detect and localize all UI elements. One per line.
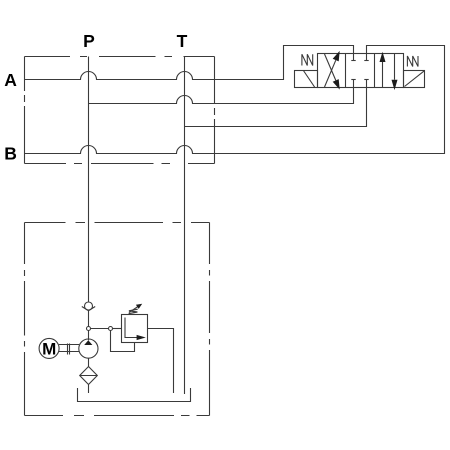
relief valve adjustment arrow	[129, 307, 138, 313]
tank (open reservoir)	[78, 388, 191, 402]
relief valve internal flow arrow	[125, 318, 137, 338]
filter F1 (diamond with element line)	[80, 367, 98, 385]
wire: junction down to pump	[88, 331, 90, 341]
valve centre position: blocked port T-bars	[351, 60, 355, 62]
valve left position: crossed arrows	[325, 54, 336, 80]
relief valve spring	[129, 309, 138, 314]
node: pilot junction circle	[109, 327, 113, 331]
node: junction circle on P line	[87, 327, 91, 331]
svg-text:M: M	[42, 339, 56, 358]
coupling shaft motor-pump	[59, 344, 79, 346]
wire: P supply vertical (manifold top to check valve)	[88, 57, 90, 303]
wire: T row from T vertical to valve bottom-right port	[185, 80, 367, 127]
relief valve RV1 body	[122, 315, 148, 343]
wire: relief valve outlet to tank	[148, 329, 174, 394]
manifold block outline (dash-dot)	[25, 57, 215, 164]
svg-text:T: T	[177, 31, 188, 51]
wire: filter to tank	[88, 385, 90, 394]
wire: port A line with bridges over P and T, up to valve top-left port	[25, 46, 354, 80]
wire: P row from P vertical, bridge over T, to valve bottom-left port	[89, 80, 354, 104]
check valve V1 (ball in seat)	[85, 302, 93, 310]
wire: port B line with bridges over P and T, right and up to valve top-right port	[25, 46, 445, 154]
wire: pilot node to relief valve inlet	[113, 328, 122, 330]
spring left (zigzag)	[302, 54, 313, 65]
wire: T return vertical (manifold top into power unit tank)	[184, 57, 186, 395]
power unit box outline (dash-dot)	[25, 223, 210, 416]
solenoid left	[295, 71, 318, 88]
svg-text:B: B	[4, 144, 17, 164]
valve right position: parallel arrows	[382, 62, 384, 88]
motor M1 circle	[39, 338, 59, 358]
svg-text:A: A	[4, 70, 17, 90]
svg-text:P: P	[83, 31, 95, 51]
valve U1 body (three squares)	[318, 54, 404, 88]
solenoid right	[404, 71, 425, 88]
pump P1 circle with outlet triangle	[79, 339, 98, 358]
wire: pump suction down to filter	[88, 358, 90, 366]
spring right (zigzag)	[407, 56, 418, 67]
wire: junction to pilot node	[91, 328, 109, 330]
wire: check valve to junction	[88, 311, 90, 327]
wire: relief pilot line	[111, 331, 135, 352]
